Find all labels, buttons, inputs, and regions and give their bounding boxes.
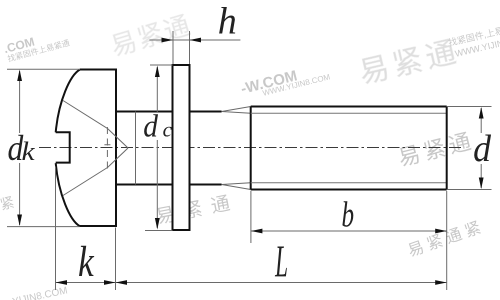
thread runout top bbox=[222, 107, 251, 114]
dk down arrow bbox=[17, 215, 22, 227]
L right arrow bbox=[435, 280, 447, 285]
L left arrow bbox=[116, 280, 128, 285]
watermark left top bbox=[2, 26, 70, 64]
k dimension extension lines bbox=[56, 167, 116, 291]
head bottom edge bbox=[80, 225, 117, 227]
svg-text:L: L bbox=[275, 236, 288, 287]
recess depth dashed line bbox=[104, 127, 110, 169]
svg-text:b: b bbox=[342, 194, 355, 234]
dk dimension extension lines bbox=[7, 69, 80, 226]
washer bbox=[173, 65, 190, 230]
shank thin vertical line bbox=[135, 112, 137, 185]
svg-text:易紧通: 易紧通 bbox=[396, 128, 478, 171]
watermark bottom right bbox=[406, 217, 488, 260]
svg-text:k: k bbox=[78, 239, 94, 286]
thread major diameter lines bbox=[251, 107, 447, 190]
dk dimension line bbox=[19, 71, 21, 225]
watermark right small text bbox=[447, 20, 500, 60]
d down arrow bbox=[479, 178, 484, 190]
L dimension line bbox=[116, 282, 447, 284]
svg-text:d: d bbox=[473, 127, 491, 169]
head bottom arc bbox=[56, 163, 80, 226]
d dimension extension lines bbox=[447, 107, 492, 190]
recess lower outer line bbox=[63, 168, 108, 196]
recess upper inner line bbox=[108, 129, 129, 149]
thread end vertical bbox=[446, 107, 448, 190]
head top edge bbox=[80, 69, 116, 71]
watermark left edge bits bbox=[0, 194, 16, 216]
thread runout bottom bbox=[222, 183, 251, 190]
svg-text:易紧: 易紧 bbox=[0, 194, 16, 216]
recess lower inner line bbox=[108, 148, 129, 168]
b dimension extension lines bbox=[251, 191, 447, 290]
watermark center bbox=[396, 128, 478, 171]
b left arrow bbox=[251, 229, 263, 234]
shank top edge bbox=[116, 111, 222, 113]
watermark mid-left bbox=[154, 191, 241, 229]
svg-text:k: k bbox=[21, 138, 35, 167]
watermark right top bbox=[356, 35, 463, 90]
dk up arrow bbox=[17, 70, 22, 82]
dc up arrow bbox=[155, 66, 160, 78]
dc dimension line bbox=[156, 67, 158, 228]
thread start vertical bbox=[250, 107, 252, 190]
svg-text:c: c bbox=[163, 118, 173, 142]
h right arrow bbox=[190, 38, 202, 43]
svg-text:YIJIN8.COM: YIJIN8.COM bbox=[11, 285, 68, 300]
svg-text:易紧通: 易紧通 bbox=[356, 35, 463, 90]
head top arc bbox=[56, 70, 80, 133]
d up arrow bbox=[479, 107, 484, 119]
k left arrow bbox=[56, 280, 68, 285]
recess upper outer line bbox=[63, 101, 108, 129]
k dimension line bbox=[56, 282, 116, 284]
svg-text:易紧通: 易紧通 bbox=[154, 191, 241, 229]
svg-text:易紧通: 易紧通 bbox=[107, 10, 195, 62]
b dimension line bbox=[251, 230, 447, 232]
svg-text:d: d bbox=[143, 109, 158, 144]
k right arrow bbox=[104, 280, 116, 285]
watermark bottom left bbox=[11, 285, 68, 300]
shank bottom edge bbox=[116, 184, 222, 186]
dc down arrow bbox=[155, 218, 160, 230]
svg-text:h: h bbox=[218, 1, 237, 43]
dc dimension extension lines bbox=[145, 65, 173, 231]
axis center line bbox=[39, 147, 463, 149]
h left arrow bbox=[162, 38, 174, 43]
watermark top center bbox=[107, 10, 195, 62]
thread minor diameter lines bbox=[251, 113, 447, 182]
b right arrow bbox=[435, 229, 447, 234]
slot notch bbox=[56, 132, 70, 162]
watermark shank COM text bbox=[239, 60, 331, 103]
h dimension line bbox=[149, 39, 240, 41]
d dimension line bbox=[480, 108, 482, 188]
head right edge bbox=[115, 69, 117, 228]
h dimension extension lines bbox=[173, 31, 190, 64]
